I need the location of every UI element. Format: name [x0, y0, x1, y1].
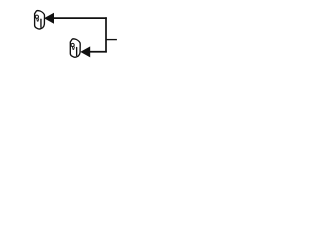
arrowhead into U1: [44, 13, 54, 24]
wire: vertical segment: [105, 17, 107, 52]
arrowhead into U2: [80, 46, 90, 57]
wire: bottom horizontal from corner to arrow: [90, 51, 107, 53]
wire: right stub at junction: [106, 39, 117, 41]
node U2 (bottom device icon): [70, 39, 80, 57]
node U1 (top device icon): [35, 11, 45, 29]
wire: top horizontal from arrow to corner: [54, 17, 107, 19]
